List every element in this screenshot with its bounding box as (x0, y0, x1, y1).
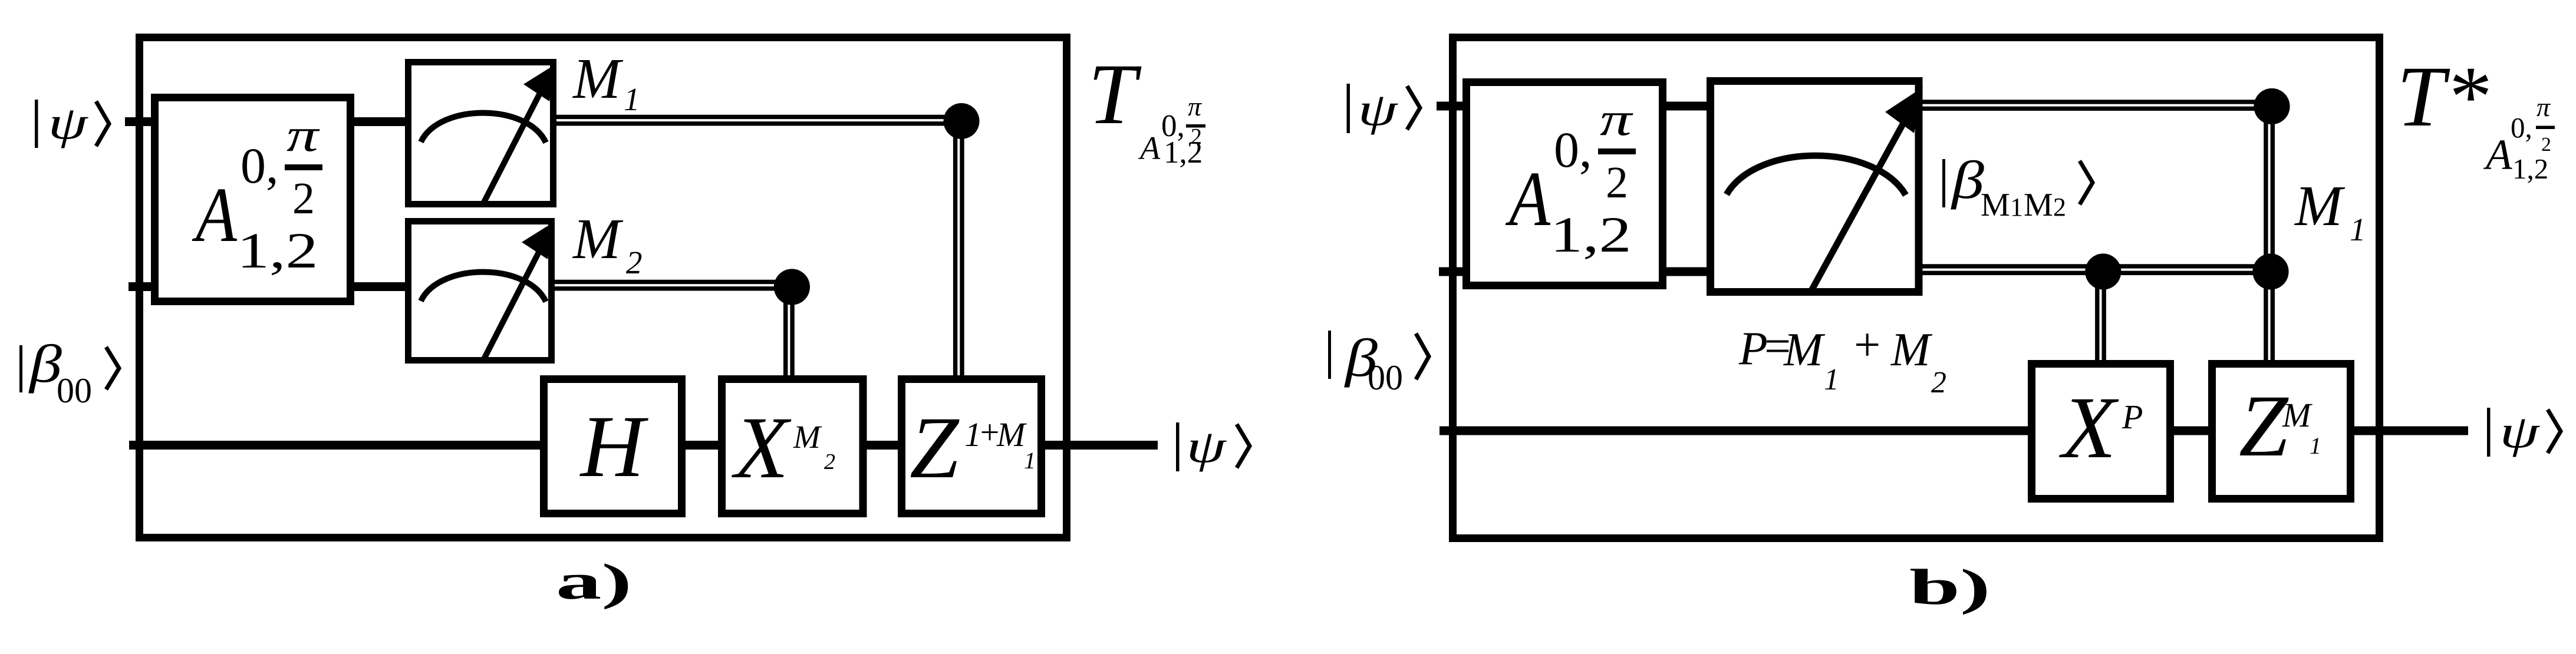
svg-text:1: 1 (1024, 447, 1036, 474)
control dot M2 (panel a) (774, 269, 810, 305)
label |beta_M1M2> (panel b) (1942, 150, 2093, 223)
label T*_A (panel b) (2397, 48, 2555, 185)
svg-text:M: M (572, 47, 624, 110)
gate Z^1+M1 label (910, 399, 1036, 497)
classical double wire M2 vertical to X gate (panel a) (783, 285, 788, 382)
svg-text:π: π (1600, 93, 1633, 145)
svg-text:M: M (2294, 174, 2346, 237)
wire qubit1 (panel b) (1437, 102, 1715, 111)
node |psi> output label (panel a) (1176, 421, 1250, 472)
label M1 (panel a) (572, 47, 640, 117)
svg-text:X: X (732, 399, 792, 497)
svg-text:A: A (2483, 131, 2512, 179)
svg-text:ψ: ψ (48, 98, 89, 148)
svg-text:ψ: ψ (2500, 407, 2541, 457)
svg-text:2: 2 (2053, 193, 2066, 222)
meter M2 box (panel a) (409, 222, 552, 361)
svg-text:1: 1 (2010, 193, 2023, 222)
svg-text:Z: Z (910, 399, 960, 497)
control dot top (panel b) (2254, 88, 2290, 124)
label P=M1+M2 (panel b) (1738, 319, 1946, 399)
wire qubit3 (panel b) (1439, 427, 2468, 435)
svg-text:2: 2 (626, 245, 643, 280)
svg-text:1,2: 1,2 (237, 223, 318, 279)
svg-text:M: M (1890, 324, 1933, 376)
svg-text:0,: 0, (241, 137, 279, 194)
svg-text:T: T (1088, 46, 1142, 142)
svg-text:β: β (1951, 150, 1985, 210)
svg-text:X: X (2059, 379, 2119, 477)
panel a frame (140, 38, 1067, 538)
svg-text:P: P (2122, 398, 2143, 436)
meter M2 needle arrowhead (522, 222, 555, 259)
svg-text:0,: 0, (2511, 111, 2532, 144)
gate X^M2 label (732, 399, 835, 497)
control dot M1 (panel a) (944, 103, 980, 139)
gate A_{1,2}^{0,pi/2} box (panel b) (1467, 82, 1663, 286)
classical double wire bottom horizontal (panel b) (1919, 264, 2269, 268)
meter needle arrowhead (panel b) (1885, 87, 1923, 133)
meter M1 needle arrowhead (523, 64, 556, 101)
svg-text:M: M (1783, 324, 1826, 376)
svg-text:00: 00 (1368, 358, 1403, 397)
svg-text:0,: 0, (1554, 121, 1592, 178)
svg-text:1,2: 1,2 (2512, 153, 2548, 185)
svg-text:2: 2 (824, 450, 835, 474)
meter needle (panel b) (1811, 117, 1907, 290)
gate X^M2 box (panel a) (722, 379, 864, 514)
svg-text:a): a) (556, 554, 632, 610)
svg-text:1: 1 (2350, 212, 2366, 247)
gate A_{1,2}^{0,pi/2} box (panel a) (155, 98, 351, 302)
gate Z^1+M1 box (panel a) (902, 379, 1042, 514)
wire qubit3 (panel a) (129, 441, 1158, 450)
svg-text:M: M (572, 207, 624, 270)
gate H box (panel a) (544, 379, 682, 514)
meter M1 box (panel a) (409, 62, 554, 204)
label T_A (panel a) (1088, 46, 1205, 170)
gate Z^M1 box (panel b) (2212, 364, 2351, 499)
svg-text:00: 00 (57, 371, 92, 410)
svg-text:ψ: ψ (1187, 421, 1227, 472)
meter M1 needle (483, 94, 539, 204)
svg-text:1: 1 (624, 81, 640, 117)
node |psi> input label (panel b) (1347, 84, 1421, 135)
classical double wire M1 vertical to Z gate (panel a) (953, 120, 957, 382)
svg-text:M: M (1981, 187, 2010, 223)
control dot bottom left (panel b) (2085, 253, 2121, 289)
svg-text:Z: Z (2239, 377, 2289, 475)
meter M2 needle (482, 252, 539, 362)
panel b frame (1453, 38, 2380, 539)
label M1 (panel b) (2294, 174, 2366, 247)
svg-text:1: 1 (2310, 432, 2321, 459)
meter M2 gauge arc (421, 272, 546, 302)
svg-text:1,2: 1,2 (1550, 207, 1632, 263)
classical double wire M1 vertical (panel b) (2264, 105, 2268, 365)
svg-text:M: M (2024, 187, 2053, 223)
svg-text:M: M (793, 419, 822, 455)
svg-text:M: M (996, 415, 1027, 454)
wire qubit2 (panel a) (129, 282, 413, 291)
gate A label (panel a) (192, 108, 322, 279)
svg-text:+: + (1851, 319, 1883, 371)
svg-text:M: M (2282, 396, 2313, 434)
svg-text:ψ: ψ (1358, 84, 1399, 135)
classical double wire M1 horizontal (panel a) (554, 115, 960, 119)
svg-text:A: A (1138, 130, 1161, 167)
gate A label (panel b) (1506, 93, 1636, 263)
Bell measurement meter box (panel b) (1711, 81, 1919, 292)
svg-text:A: A (1506, 155, 1551, 242)
svg-text:b): b) (1909, 559, 1991, 615)
svg-text:1: 1 (1824, 363, 1839, 397)
classical double wire top horizontal (panel b) (1919, 100, 2271, 104)
label M2 (panel a) (572, 207, 643, 280)
classical double wire P vertical to X gate (panel b) (2095, 269, 2099, 365)
meter gauge arc (panel b) (1727, 156, 1906, 195)
wire qubit2 (panel b) (1439, 267, 1715, 276)
gate Z^M1 label (2239, 377, 2321, 475)
svg-text:π: π (1188, 91, 1203, 121)
gate X^P label (2059, 379, 2143, 477)
node |psi> input label (panel a) (35, 98, 109, 148)
svg-text:T*: T* (2397, 48, 2489, 144)
svg-text:π: π (286, 108, 320, 161)
node |psi> output label (panel b) (2487, 407, 2561, 457)
svg-text:2: 2 (292, 174, 315, 223)
wire qubit1 (panel a) (125, 117, 413, 126)
gate X^P box (panel b) (2032, 364, 2170, 499)
classical double wire M2 horizontal (panel a) (551, 280, 790, 284)
svg-text:1,2: 1,2 (1164, 136, 1203, 170)
svg-text:A: A (192, 171, 238, 258)
control dot bottom right (panel b) (2252, 253, 2288, 289)
svg-text:2: 2 (1931, 366, 1946, 399)
meter M1 gauge arc (421, 113, 546, 143)
node |beta00> input label (panel b) (1328, 328, 1429, 397)
svg-text:π: π (2537, 92, 2551, 122)
svg-text:2: 2 (1606, 158, 1628, 207)
svg-text:H: H (579, 398, 649, 496)
node |beta00> input label (panel a) (19, 334, 119, 410)
